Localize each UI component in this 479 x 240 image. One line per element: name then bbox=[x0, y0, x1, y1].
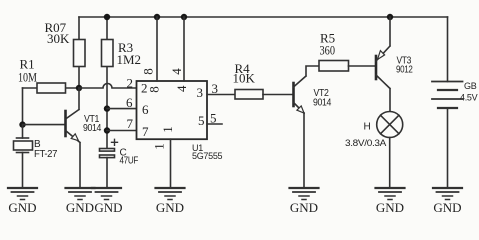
svg-text:H: H bbox=[364, 122, 371, 133]
pin number 4 inside rotated bbox=[174, 85, 189, 92]
svg-text:5: 5 bbox=[198, 113, 205, 128]
label U1 5G7555 bbox=[192, 143, 223, 161]
junction dot rail-VT3 emitter bbox=[387, 14, 393, 20]
svg-text:4.5V: 4.5V bbox=[460, 93, 478, 103]
lamp H bbox=[377, 112, 403, 189]
label GB 4.5V bbox=[460, 81, 478, 103]
wire battery top lead bbox=[447, 17, 449, 82]
wire pin7 bbox=[107, 130, 137, 132]
wire pin1 bbox=[170, 139, 172, 188]
pin number 2 outside bbox=[127, 75, 134, 90]
resistor R3 bbox=[102, 17, 114, 149]
label R1 10M bbox=[18, 57, 37, 85]
ground VT1 emitter bbox=[66, 188, 95, 215]
ground battery bbox=[433, 188, 462, 215]
label R4 10K bbox=[233, 61, 256, 86]
ground lamp bbox=[376, 188, 405, 215]
label H bbox=[364, 122, 371, 133]
junction dot R1/R07/VT1 collector node bbox=[76, 85, 82, 91]
pin number 5 outside bbox=[210, 111, 217, 126]
pin number 5 inside bbox=[198, 113, 205, 128]
svg-text:GND: GND bbox=[94, 200, 122, 215]
label R3 1M2 bbox=[117, 40, 142, 67]
label VT3 9012 bbox=[396, 56, 413, 76]
pin number 6 outside bbox=[126, 95, 133, 110]
svg-text:7: 7 bbox=[127, 116, 134, 131]
svg-text:6: 6 bbox=[126, 95, 133, 110]
junction dot base node B bbox=[19, 121, 25, 127]
resistor R1 bbox=[23, 83, 80, 93]
capacitor C 47UF bbox=[100, 139, 118, 188]
svg-text:GND: GND bbox=[290, 200, 318, 215]
junction dot pin6 node bbox=[104, 105, 110, 111]
label 3.8V/0.3A bbox=[345, 138, 386, 148]
ground B bbox=[8, 188, 37, 215]
ground C bbox=[92, 188, 123, 215]
svg-text:360: 360 bbox=[320, 43, 336, 58]
resistor R4 bbox=[235, 90, 292, 100]
pin number 7 outside bbox=[127, 116, 134, 131]
svg-text:GND: GND bbox=[8, 200, 36, 215]
svg-text:9014: 9014 bbox=[313, 98, 332, 109]
resistor R07 bbox=[74, 17, 86, 88]
svg-text:GND: GND bbox=[66, 200, 94, 215]
wire pin4 bbox=[183, 17, 185, 81]
wire pin5 stub bbox=[207, 123, 222, 125]
junction dot pin7 node bbox=[104, 127, 110, 133]
svg-text:8: 8 bbox=[140, 68, 155, 75]
label B FT-27 bbox=[34, 139, 58, 160]
svg-text:1: 1 bbox=[160, 126, 175, 133]
wire pin8 bbox=[156, 17, 158, 81]
pin number 4 outside rotated bbox=[169, 68, 184, 75]
svg-text:GND: GND bbox=[156, 200, 184, 215]
label R5 360 bbox=[320, 31, 336, 58]
svg-text:4: 4 bbox=[169, 68, 184, 75]
pin number 7 inside bbox=[142, 124, 149, 139]
svg-text:30K: 30K bbox=[47, 31, 70, 46]
ground VT2 emitter bbox=[290, 188, 319, 215]
transistor VT3 bbox=[376, 17, 390, 112]
pin number 3 outside bbox=[212, 81, 219, 96]
IC U1 555 timer 5G7555 bbox=[137, 81, 208, 139]
transducer B FT-27 bbox=[14, 125, 33, 188]
svg-text:47UF: 47UF bbox=[120, 156, 139, 167]
svg-text:10K: 10K bbox=[233, 71, 256, 86]
svg-text:2: 2 bbox=[127, 75, 134, 90]
transistor VT2 bbox=[294, 66, 320, 188]
wire pin3 bbox=[207, 94, 235, 96]
svg-text:10M: 10M bbox=[18, 70, 37, 85]
svg-text:3: 3 bbox=[212, 81, 219, 96]
transistor VT1 bbox=[66, 88, 81, 188]
pin number 8 outside rotated bbox=[140, 68, 155, 75]
label R07 30K bbox=[45, 20, 71, 46]
battery GB bbox=[432, 82, 463, 189]
pin number 1 outside rotated bbox=[152, 143, 167, 150]
pin number 8 inside rotated bbox=[147, 86, 162, 93]
svg-text:6: 6 bbox=[142, 102, 149, 117]
wire pin6 bbox=[107, 108, 137, 110]
svg-text:FT-27: FT-27 bbox=[34, 149, 58, 160]
svg-text:5: 5 bbox=[210, 111, 217, 126]
pin number 1 inside rotated bbox=[160, 126, 175, 133]
junction dot rail-pin4 bbox=[181, 14, 187, 20]
resistor R5 bbox=[319, 61, 375, 72]
svg-text:7: 7 bbox=[142, 124, 149, 139]
pin number 3 inside bbox=[197, 85, 204, 100]
junction dot rail-pin8 bbox=[154, 14, 160, 20]
pin number 6 inside bbox=[142, 102, 149, 117]
svg-text:8: 8 bbox=[147, 86, 162, 93]
wire R1 left to base node bbox=[22, 88, 24, 125]
svg-text:GND: GND bbox=[376, 200, 404, 215]
svg-text:GB: GB bbox=[464, 81, 477, 91]
wire base node to VT1 base bbox=[23, 124, 65, 126]
svg-text:5G7555: 5G7555 bbox=[192, 151, 223, 161]
svg-text:1M2: 1M2 bbox=[117, 52, 142, 67]
svg-text:1: 1 bbox=[152, 143, 167, 150]
ground U1 pin1 bbox=[156, 188, 185, 215]
pin number 2 inside bbox=[141, 81, 148, 96]
svg-text:9012: 9012 bbox=[396, 65, 413, 76]
svg-text:GND: GND bbox=[433, 200, 461, 215]
label C 47UF bbox=[120, 148, 139, 167]
svg-text:4: 4 bbox=[174, 85, 189, 92]
svg-text:3.8V/0.3A: 3.8V/0.3A bbox=[345, 138, 386, 148]
wire pin2 with hop over R3-C line bbox=[79, 84, 137, 89]
label VT1 9014 bbox=[83, 114, 102, 134]
label VT2 9014 bbox=[313, 88, 332, 109]
svg-text:9014: 9014 bbox=[83, 123, 102, 134]
svg-text:3: 3 bbox=[197, 85, 204, 100]
junction dot rail-R3 bbox=[104, 14, 110, 20]
wire top supply rail bbox=[79, 16, 448, 18]
